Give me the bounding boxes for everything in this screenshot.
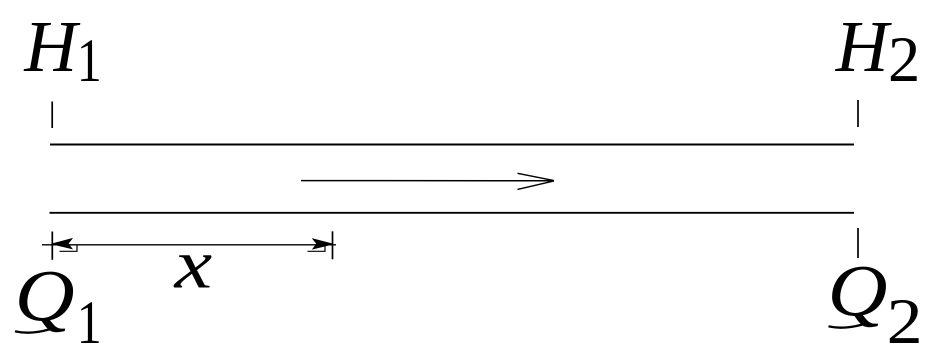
dimension left arrowhead artifact — [60, 245, 78, 252]
label Q1 — [15, 256, 102, 358]
extension tick below H2 — [857, 100, 859, 127]
dimension right arrowhead artifact — [308, 245, 326, 251]
pipe bottom wall — [50, 212, 855, 214]
pipe top wall — [50, 144, 854, 146]
label Q2 — [828, 251, 923, 358]
flow arrow lower barb — [518, 181, 555, 190]
svg-text:Q: Q — [828, 251, 888, 332]
label H1 — [23, 6, 101, 95]
svg-text:x: x — [173, 227, 212, 304]
dimension line for x — [42, 244, 336, 246]
dimension right arrowhead — [313, 239, 332, 249]
flow arrow upper barb — [518, 173, 555, 180]
label H2 — [835, 6, 921, 95]
svg-text:Q: Q — [15, 256, 75, 337]
extension tick below H1 — [51, 102, 53, 129]
svg-text:1: 1 — [77, 28, 102, 95]
extension tick above Q2 — [857, 228, 859, 258]
flow arrow shaft — [301, 180, 554, 182]
svg-text:1: 1 — [77, 290, 102, 357]
svg-text:2: 2 — [888, 24, 920, 95]
svg-text:H: H — [835, 6, 892, 87]
dimension right tick — [332, 231, 334, 259]
svg-text:2: 2 — [887, 286, 923, 357]
dimension left arrowhead — [53, 239, 72, 249]
dimension left tick — [51, 232, 53, 260]
svg-text:H: H — [23, 6, 80, 87]
